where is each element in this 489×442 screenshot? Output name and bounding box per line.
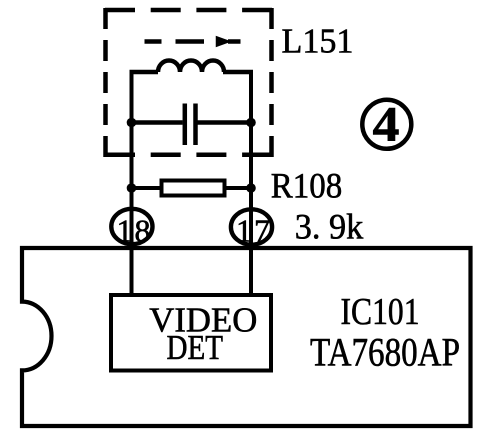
wire capacitor row left <box>130 120 183 125</box>
wire through pin 17 <box>249 208 253 297</box>
svg-text:1: 1 <box>236 213 252 249</box>
wire left vertical (pin 18 net) <box>130 70 134 297</box>
wire capacitor row right <box>198 120 254 125</box>
resistor R108 body <box>162 181 225 196</box>
svg-text:8: 8 <box>135 213 151 249</box>
wire right vertical (pin 17 net) <box>249 70 253 297</box>
wire through pin 18 <box>130 208 134 297</box>
capacitor plates <box>183 104 188 146</box>
wire resistor stub right <box>225 186 251 190</box>
svg-text:DET: DET <box>167 328 224 367</box>
IC101 package outline with notch <box>22 248 471 426</box>
wire tank top right <box>223 70 253 75</box>
svg-text:7: 7 <box>254 213 270 249</box>
shield box (dashed) around L151 tank <box>105 8 272 157</box>
svg-text:3. 9k: 3. 9k <box>295 207 364 247</box>
junction dot resistor right <box>246 183 256 193</box>
pin 18 circle <box>111 209 152 244</box>
svg-text:R108: R108 <box>271 166 343 206</box>
pin 17 circle <box>231 209 272 244</box>
dashed adjustment arrow inside shield <box>145 37 241 46</box>
junction dot resistor left <box>127 183 137 193</box>
junction dot tank left <box>127 118 137 128</box>
VIDEO DET block <box>111 295 271 371</box>
junction dot tank right <box>246 118 256 128</box>
svg-text:IC101: IC101 <box>341 291 420 333</box>
wire tank top left <box>130 70 159 75</box>
wire resistor stub left <box>132 186 162 190</box>
svg-text:1: 1 <box>117 213 133 249</box>
svg-text:TA7680AP: TA7680AP <box>310 330 460 375</box>
inductor L151 coil <box>158 61 224 73</box>
svg-text:L151: L151 <box>282 22 354 61</box>
svg-text:4: 4 <box>373 96 400 152</box>
circled 4 callout <box>362 100 411 149</box>
